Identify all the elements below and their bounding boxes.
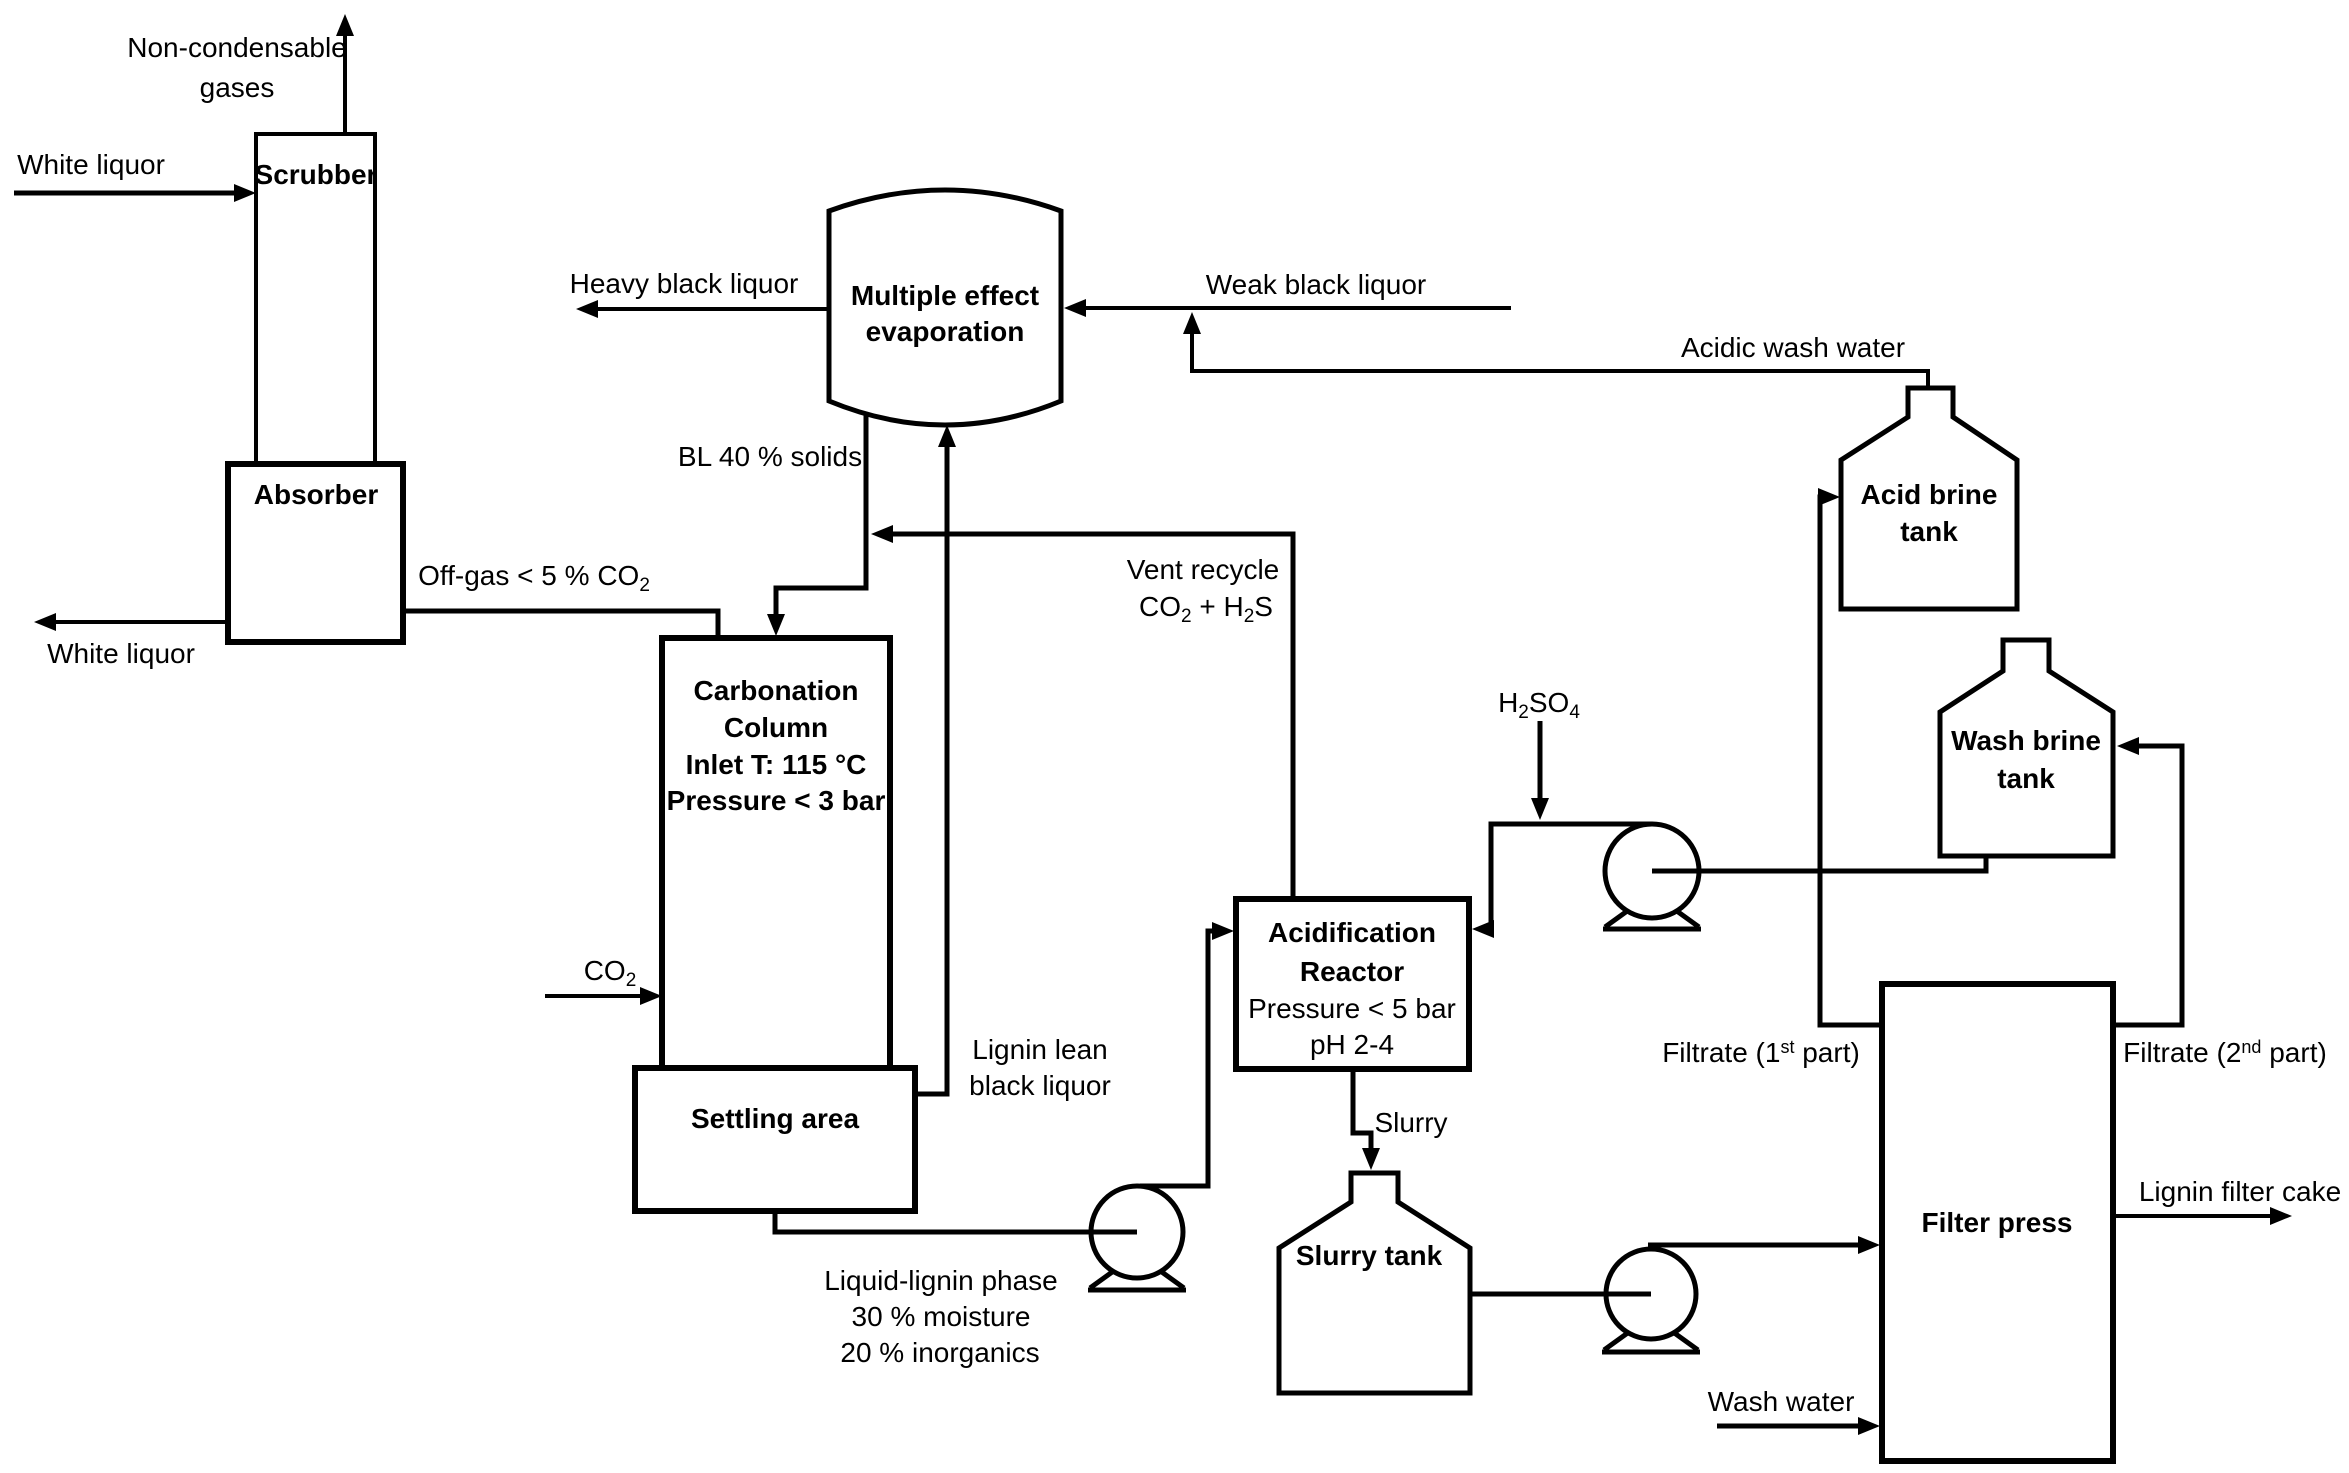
svg-text:Non-condensable: Non-condensable (127, 32, 347, 63)
svg-text:evaporation: evaporation (866, 316, 1025, 347)
arrowhead into wash brine tank (2117, 737, 2139, 755)
wire white liquor into scrubber (14, 191, 250, 196)
arrowhead lignin lean up (938, 425, 956, 447)
svg-text:Column: Column (724, 712, 828, 743)
acid brine tank (1841, 388, 2017, 609)
arrowhead into acid brine tank (1818, 488, 1840, 506)
svg-text:Weak black liquor: Weak black liquor (1206, 269, 1426, 300)
wire wash brine tank outlet to pump P3 (1652, 856, 1986, 871)
carbonation column vessel (662, 638, 890, 1068)
wash brine tank (1940, 640, 2113, 856)
wire CO2 into carbonation column (545, 994, 656, 998)
arrowhead H2SO4 down (1531, 798, 1549, 820)
svg-text:Heavy black liquor: Heavy black liquor (570, 268, 799, 299)
wire settling area outlet to pump P1 (775, 1211, 1137, 1232)
arrowhead CO2 in (640, 987, 662, 1005)
scrubber column vessel (256, 134, 375, 464)
svg-text:30 % moisture: 30 % moisture (852, 1301, 1031, 1332)
wire filtrate 1st part to acid brine tank (1820, 497, 1882, 1025)
svg-text:White liquor: White liquor (17, 149, 165, 180)
svg-text:White liquor: White liquor (47, 638, 195, 669)
wire lignin lean black liquor from settling area to evaporation (915, 431, 947, 1094)
arrowhead white liquor in (234, 184, 256, 202)
arrowhead non-condensable gases (336, 14, 354, 36)
svg-text:Acidic wash water: Acidic wash water (1681, 332, 1905, 363)
arrowhead wash water (1858, 1417, 1880, 1435)
arrowhead into filter press slurry (1858, 1236, 1880, 1254)
svg-text:Vent recycle: Vent recycle (1127, 554, 1280, 585)
wire filtrate 2nd part to wash brine tank (2113, 746, 2182, 1025)
multiple effect evaporation vessel (829, 190, 1061, 425)
arrowhead lignin filter cake (2270, 1207, 2292, 1225)
wire white liquor out of absorber (40, 620, 228, 624)
arrowhead into reactor left (1212, 922, 1234, 940)
svg-text:gases: gases (200, 72, 275, 103)
wire vent recycle from acidification reactor (877, 534, 1293, 899)
filter press unit (1882, 984, 2113, 1461)
arrowhead weak black liquor (1064, 299, 1086, 317)
arrowhead white liquor out (34, 613, 56, 631)
svg-text:20 % inorganics: 20 % inorganics (840, 1337, 1039, 1368)
svg-text:tank: tank (1997, 763, 2055, 794)
svg-text:Filter press: Filter press (1922, 1207, 2073, 1238)
wire slurry tank outlet to pump P2 (1470, 1292, 1651, 1297)
wire H2SO4 feed (1538, 721, 1543, 814)
svg-text:Slurry tank: Slurry tank (1296, 1240, 1443, 1271)
wire pump P3 discharge to acidification reactor (1479, 824, 1652, 929)
arrowhead acidic wash water up (1183, 312, 1201, 334)
settling area vessel (635, 1068, 915, 1211)
svg-text:Reactor: Reactor (1300, 956, 1404, 987)
pump P2 stand (slurry tank pump) (1602, 1332, 1700, 1352)
wire pump P2 discharge to filter press (1648, 1243, 1872, 1248)
wire non-condensable gases out of scrubber top (343, 22, 347, 134)
wire slurry from reactor to slurry tank (1353, 1069, 1371, 1164)
wire lignin filter cake out of filter press (2113, 1214, 2286, 1218)
svg-text:CO2 + H2S: CO2 + H2S (1139, 591, 1273, 627)
svg-text:Slurry: Slurry (1374, 1107, 1447, 1138)
svg-text:Liquid-lignin phase: Liquid-lignin phase (824, 1265, 1058, 1296)
svg-text:Pressure < 3 bar: Pressure < 3 bar (667, 785, 886, 816)
svg-text:Settling area: Settling area (691, 1103, 859, 1134)
svg-text:Pressure < 5 bar: Pressure < 5 bar (1248, 993, 1456, 1024)
arrowhead vent recycle left (871, 525, 893, 543)
wire weak black liquor into evaporation (1070, 306, 1511, 310)
arrowhead into reactor right (1472, 920, 1494, 938)
absorber vessel (228, 464, 403, 642)
svg-text:Filtrate (1st part): Filtrate (1st part) (1662, 1037, 1860, 1068)
svg-text:Inlet T: 115 °C: Inlet T: 115 °C (686, 749, 867, 780)
svg-text:Wash brine: Wash brine (1951, 725, 2101, 756)
pump P2 circle (1606, 1249, 1696, 1339)
wire wash water into filter press (1717, 1424, 1872, 1429)
svg-text:Acid brine: Acid brine (1861, 479, 1998, 510)
pump P3 stand (acid feed pump) (1603, 909, 1701, 929)
pump P3 circle (1605, 824, 1699, 918)
svg-text:Acidification: Acidification (1268, 917, 1436, 948)
pump P1 stand (settling area pump) (1088, 1270, 1186, 1290)
pump P1 circle (1091, 1186, 1183, 1278)
svg-text:CO2: CO2 (584, 955, 637, 991)
svg-text:Multiple effect: Multiple effect (851, 280, 1039, 311)
wire acidic wash water from acid brine tank to weak black liquor (1192, 318, 1928, 390)
svg-text:tank: tank (1900, 516, 1958, 547)
slurry tank (1279, 1173, 1470, 1393)
svg-text:Wash water: Wash water (1708, 1386, 1855, 1417)
arrowhead slurry down (1362, 1148, 1380, 1170)
svg-text:black liquor: black liquor (969, 1070, 1111, 1101)
svg-text:Carbonation: Carbonation (694, 675, 859, 706)
svg-text:Off-gas < 5 % CO2: Off-gas < 5 % CO2 (418, 560, 650, 596)
svg-text:H2SO4: H2SO4 (1498, 687, 1580, 723)
svg-text:pH 2-4: pH 2-4 (1310, 1029, 1394, 1060)
svg-text:Lignin lean: Lignin lean (972, 1034, 1107, 1065)
wire heavy black liquor out of evaporation (582, 307, 829, 311)
svg-text:BL 40 % solids: BL 40 % solids (678, 441, 862, 472)
svg-text:Scrubber: Scrubber (255, 159, 378, 190)
svg-text:Lignin filter cake: Lignin filter cake (2139, 1176, 2341, 1207)
arrowhead BL 40% solids down (767, 614, 785, 636)
acidification reactor vessel (1236, 899, 1469, 1069)
svg-text:Absorber: Absorber (254, 479, 379, 510)
svg-text:Filtrate (2nd part): Filtrate (2nd part) (2123, 1037, 2327, 1068)
arrowhead heavy black liquor (576, 300, 598, 318)
wire off-gas from absorber to carbonation column (403, 611, 718, 640)
wire BL 40% solids from evaporation to carbonation column (776, 413, 866, 630)
wire pump P1 discharge to acidification reactor (1140, 931, 1228, 1186)
